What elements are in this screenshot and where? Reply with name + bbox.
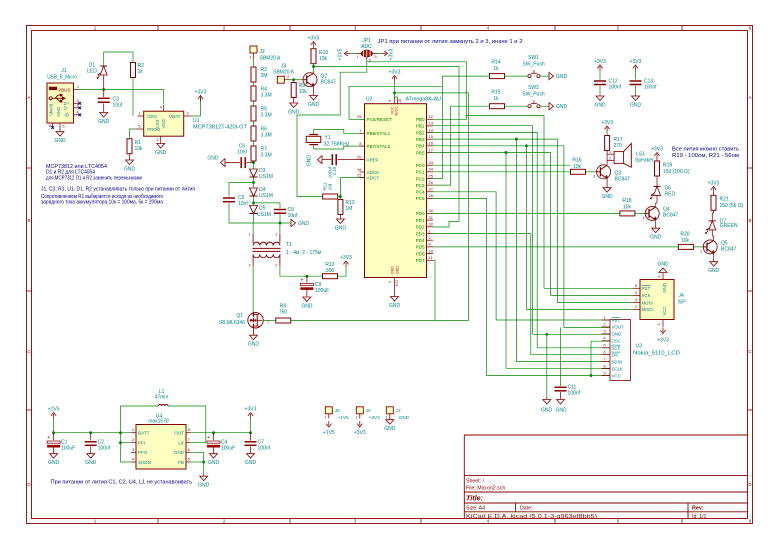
wire R5-R6 [253, 121, 255, 126]
wire PFI to rail [121, 433, 132, 443]
connector J6 [356, 407, 363, 414]
capacitor C1 100uF [53, 433, 55, 440]
resistor R13 1M [339, 197, 341, 200]
U4 pin 1 BATT [131, 432, 136, 434]
svg-text:19: 19 [357, 167, 362, 172]
svg-text:PB3: PB3 [416, 137, 425, 142]
svg-text:10uf: 10uf [113, 102, 123, 108]
U2 pin 11 PD7 [427, 259, 434, 261]
svg-text:MOSI: MOSI [642, 300, 653, 305]
IC U1 MCP73812 [144, 111, 184, 136]
svg-text:CEN: CEN [147, 114, 157, 119]
U2 pin 26 PC3 [427, 184, 434, 186]
svg-text:B: B [748, 218, 751, 223]
wire PB5 to LCD SCLK [505, 153, 507, 369]
svg-text:10k: 10k [319, 56, 328, 62]
svg-text:GND: GND [288, 110, 300, 116]
svg-text:ADC7: ADC7 [367, 175, 380, 180]
svg-text:VOUT: VOUT [612, 325, 625, 330]
svg-text:+3V3: +3V3 [389, 70, 401, 76]
svg-text:270: 270 [614, 143, 623, 149]
svg-text:+3V3: +3V3 [630, 59, 642, 65]
svg-text:16: 16 [429, 141, 434, 146]
svg-text:12: 12 [429, 114, 434, 119]
svg-text:17: 17 [429, 147, 434, 152]
U1 pin 3 VBAT [184, 115, 192, 117]
svg-text:GND: GND [298, 221, 310, 227]
svg-text:GND: GND [308, 102, 320, 108]
svg-text:GND: GND [556, 74, 568, 80]
junction PB3 SDIN [515, 138, 518, 141]
wire PB0 to RST net [433, 115, 544, 288]
resistor R2 1k [131, 63, 136, 78]
svg-text:13: 13 [429, 121, 434, 126]
svg-text:10k: 10k [135, 146, 144, 152]
ground below R9 [293, 102, 295, 104]
U2 pin 19 ADC6 [360, 171, 365, 173]
svg-text:300: 300 [326, 268, 335, 274]
svg-text:R20: R20 [680, 232, 689, 238]
ground below J7 [389, 419, 391, 420]
wire PC4 to LCD RST [433, 192, 496, 320]
resistor R17 270 [605, 136, 610, 151]
wire to C5 top [229, 183, 254, 197]
svg-text:PB7/XTAL2: PB7/XTAL2 [367, 144, 391, 149]
power +3V3 U4 out [250, 414, 252, 419]
wire PD7 branch [433, 260, 435, 262]
ground below Q4 [655, 227, 657, 228]
svg-text:Id: 1/1: Id: 1/1 [692, 514, 707, 520]
svg-text:+3V3: +3V3 [195, 90, 207, 96]
svg-text:18: 18 [398, 99, 402, 103]
wire PB4 branch to J4 MISO [526, 146, 632, 310]
wire to C8 top [254, 203, 281, 208]
svg-text:1: 1 [275, 233, 277, 237]
wire C5 bottom [229, 203, 254, 223]
svg-text:1: 1 [609, 150, 611, 154]
U3 pin 4 OSC [602, 340, 611, 342]
power +3V3 R10 [313, 43, 315, 48]
U3 pin 9 VCC [602, 375, 611, 377]
Q4 emitter to ground [655, 220, 657, 227]
svg-text:зарядного тока аккумулятора 10: зарядного тока аккумулятора 10к = 100ма,… [41, 200, 163, 206]
svg-text:A: A [748, 95, 751, 100]
wire LCD VCC row [487, 375, 611, 377]
svg-text:PD0: PD0 [416, 211, 425, 216]
power +1V5 below J5 [328, 421, 330, 426]
U4 pin 8 OUT [186, 432, 191, 434]
ground above J4 [662, 273, 664, 274]
title block [464, 434, 747, 436]
svg-text:MCP73812T-420I-OT: MCP73812T-420I-OT [193, 125, 247, 131]
svg-text:D/C: D/C [612, 353, 620, 358]
U3 pin 8 SCLK [602, 368, 611, 370]
pin 5 GND [59, 123, 61, 129]
svg-text:Sheet: /: Sheet: / [466, 478, 484, 484]
wire R10 top to +3V3 [313, 47, 315, 49]
ground below Q2 [313, 94, 315, 96]
power +3V3 R12 [345, 263, 347, 268]
transistor Q2 BC847 [303, 73, 317, 87]
svg-text:5,21: 5,21 [395, 280, 399, 287]
ground below R1 [129, 159, 131, 161]
svg-text:1k: 1k [138, 69, 144, 75]
svg-text:PD7: PD7 [416, 258, 425, 263]
wire PD7 branch to gate run [434, 262, 436, 321]
svg-text:R19 - 100ом, R21 - 56ом: R19 - 100ом, R21 - 56ом [672, 153, 740, 159]
svg-text:PC0: PC0 [416, 163, 425, 168]
wire R2 to U1 CEN [132, 78, 134, 117]
svg-text:+1V5: +1V5 [337, 48, 343, 60]
wire PD0 to R18 [433, 212, 620, 214]
wire PD3 to LCD D/C [433, 234, 531, 355]
ground below Q3 [606, 187, 608, 188]
svg-text:GND: GND [662, 283, 667, 293]
svg-text:100uF: 100uF [315, 288, 329, 294]
svg-text:100nf: 100nf [644, 85, 657, 91]
U2 pin 17 PB5 [427, 152, 434, 154]
svg-text:A: A [27, 95, 30, 100]
power +3V3 right of JP1 [382, 53, 387, 55]
svg-text:GND: GND [708, 268, 720, 274]
wire R15 left [451, 105, 490, 107]
svg-text:GND: GND [541, 408, 553, 414]
svg-text:GND: GND [207, 156, 219, 162]
ground below C12 [599, 95, 601, 97]
svg-text:AVCC: AVCC [395, 106, 399, 116]
wire J3 to Q2 base [290, 79, 303, 81]
svg-text:100nf: 100nf [568, 391, 581, 397]
svg-text:PD4: PD4 [416, 238, 425, 243]
wire VBAT to +3V3 [192, 96, 201, 117]
U2 GND pins bottom [394, 278, 396, 297]
ground below C11 [560, 398, 562, 400]
svg-text:SDIN: SDIN [612, 359, 623, 364]
svg-text:GND: GND [650, 235, 662, 241]
svg-text:US1M: US1M [259, 193, 273, 199]
svg-text:При питании от лития C1, C2, U: При питании от лития C1, C2, U4, L1 не у… [51, 479, 193, 485]
wire OSC-VCC tie [590, 341, 592, 375]
svg-text:1: 1 [324, 416, 326, 420]
U2 VCC AVCC top pins [394, 97, 396, 104]
wire R6-R7 [253, 141, 255, 146]
svg-text:RST: RST [642, 286, 651, 291]
svg-text:J1, C3, R1, U1, D1, R2 устанав: J1, C3, R1, U1, D1, R2 устанавливать тол… [41, 187, 195, 193]
wire T1 primary right to C9 node [280, 266, 323, 276]
svg-text:GND: GND [389, 303, 401, 309]
U3 pin 3 GND [602, 333, 611, 335]
resistor R21 150 [711, 195, 716, 210]
wire PB1 to LCD GND row [433, 126, 533, 335]
wire R15 to SW2 [505, 105, 528, 107]
svg-text:Shield: Shield [49, 103, 54, 116]
svg-text:GND: GND [248, 342, 260, 348]
U2 pin 25 PC2 [427, 177, 434, 179]
wire LCD RST row [496, 319, 610, 321]
svg-text:ID: ID [65, 113, 70, 118]
U2 pin 22 ADC7 [360, 177, 365, 179]
svg-text:J5: J5 [335, 408, 340, 413]
svg-text:IRLML6346: IRLML6346 [219, 320, 245, 326]
capacitor C7 100nf [250, 433, 252, 441]
svg-text:26: 26 [429, 180, 434, 185]
wire PB5 SCK row [433, 153, 633, 296]
svg-text:+3V3: +3V3 [594, 59, 606, 65]
power +3V3 R19 [656, 154, 658, 159]
J4 pin 1 MISO [633, 308, 640, 310]
svg-text:USB_B_Micro: USB_B_Micro [47, 75, 77, 81]
Q1 drain lead [252, 311, 254, 314]
svg-text:+1V5: +1V5 [323, 430, 335, 436]
svg-text:GND: GND [556, 104, 568, 110]
capacitor C2 100nf [90, 433, 92, 441]
svg-text:Date:: Date: [520, 506, 532, 512]
svg-text:SW2: SW2 [528, 85, 539, 91]
svg-text:29: 29 [357, 114, 362, 119]
resistor R10 10k [311, 49, 316, 64]
ground below C9 [306, 296, 308, 298]
wire R7 to node [253, 161, 255, 169]
svg-text:GND: GND [98, 119, 110, 125]
transistor Q5 BC847 [703, 240, 717, 254]
U4 pin 4 SHDN [131, 461, 136, 463]
wire T1 secondary left up [252, 223, 254, 234]
svg-text:4: 4 [388, 100, 392, 102]
svg-text:+3V3: +3V3 [389, 48, 395, 60]
junction D3-C5 [252, 181, 255, 184]
svg-text:+3V3: +3V3 [245, 407, 257, 413]
svg-text:+: + [300, 277, 303, 283]
svg-text:SBM20 A: SBM20 A [260, 56, 282, 62]
U2 pin 15 PB3 [427, 138, 434, 140]
ground below C13 [635, 95, 637, 97]
U3 pin 7 SDIN [602, 361, 611, 363]
U4 pin 2 PFI [131, 442, 136, 444]
power +3V3 speaker [606, 128, 608, 133]
svg-text:Y1: Y1 [325, 135, 331, 141]
svg-text:+3V3: +3V3 [708, 181, 720, 187]
svg-text:R21: R21 [720, 197, 729, 203]
svg-text:PD2: PD2 [416, 225, 425, 230]
svg-text:GND: GND [85, 460, 97, 466]
wire D4-D5 [253, 196, 255, 206]
svg-text:SCLK: SCLK [612, 366, 624, 371]
power +1V5 left of JP1 [346, 53, 351, 55]
U2 pin 9 PD5 [427, 246, 434, 248]
svg-text:GND: GND [54, 138, 66, 144]
svg-text:GND: GND [124, 167, 136, 173]
svg-text:PC3: PC3 [416, 183, 425, 188]
U2 pin 30 PD0 [427, 212, 434, 214]
svg-text:VBUS: VBUS [58, 87, 71, 92]
svg-text:47mm: 47mm [155, 395, 169, 401]
svg-text:100uF: 100uF [61, 446, 75, 452]
wire D7 to R21 [711, 213, 713, 221]
wire PB2 to LCD SCE [433, 132, 537, 347]
junction Q2-R10 [312, 65, 315, 68]
svg-text:T1: T1 [286, 242, 292, 248]
speaker pin 2 [607, 159, 614, 161]
svg-text:PD3: PD3 [416, 231, 425, 236]
U4 pin 3 PFO [131, 451, 136, 453]
wire SHDN to rail [121, 443, 132, 462]
svg-text:GND: GND [399, 415, 410, 420]
power +3V3 below J4 [662, 328, 664, 333]
junction R11-R13 [339, 195, 342, 198]
svg-text:10nf: 10nf [238, 201, 248, 207]
svg-text:PFO: PFO [138, 450, 148, 455]
svg-text:PC1: PC1 [416, 170, 425, 175]
junction C9 [305, 275, 308, 278]
svg-text:PB2: PB2 [416, 130, 425, 135]
resistor R1 10k [127, 139, 132, 154]
U1 pin 2 VSS [160, 136, 162, 141]
svg-text:Size: A4: Size: A4 [466, 506, 485, 512]
capacitor C5 10nf [223, 197, 235, 199]
svg-text:28: 28 [429, 193, 434, 198]
wire RESET run [349, 118, 365, 120]
wire D6 to R19 [656, 176, 658, 186]
diode D6 RED led [654, 185, 661, 187]
diode D3 US1M [250, 169, 258, 177]
svg-text:D-: D- [64, 106, 69, 111]
Q4 collector to D6 [655, 203, 657, 206]
wire LCD GND down [546, 334, 548, 398]
U3 pin 1 RST [602, 319, 611, 321]
wire T1 primary left to Q1 drain [252, 266, 254, 312]
svg-text:VDD: VDD [161, 119, 166, 128]
wire R1 to gnd [129, 154, 131, 159]
svg-text:2: 2 [657, 324, 661, 326]
svg-text:10k: 10k [573, 164, 582, 170]
junction OSC VCC [590, 374, 593, 377]
power +3V3 R21 [713, 188, 715, 193]
diode D7 GREEN led [709, 220, 716, 222]
svg-text:PB1: PB1 [416, 124, 425, 129]
wire LCD SCE row [537, 347, 610, 349]
wire PB3 MOSI row [433, 139, 633, 302]
resistor R14 1k [490, 74, 505, 79]
svg-text:ISP: ISP [678, 300, 687, 306]
svg-text:Q1: Q1 [236, 313, 243, 319]
svg-text:GND: GND [594, 103, 606, 109]
resistor R15 1k [490, 104, 505, 109]
svg-text:GND: GND [657, 262, 669, 268]
svg-text:PD1: PD1 [416, 218, 425, 223]
svg-text:+1V5: +1V5 [338, 415, 349, 420]
svg-text:GND: GND [335, 226, 347, 232]
svg-text:VBAT: VBAT [169, 114, 181, 119]
svg-text:SCE: SCE [612, 346, 621, 351]
svg-text:SW_Push: SW_Push [522, 62, 544, 68]
svg-text:27: 27 [429, 187, 434, 192]
svg-text:U3: U3 [636, 344, 643, 350]
svg-text:23: 23 [429, 160, 434, 165]
svg-text:1k: 1k [493, 66, 499, 72]
U1 pin 4 VDD [163, 105, 165, 112]
ground right of SW2 [549, 103, 554, 110]
power +3V3 below J6 [359, 421, 361, 426]
svg-text:30: 30 [429, 208, 434, 213]
svg-text:VCC: VCC [612, 373, 621, 378]
wire BATT rail [54, 432, 131, 434]
svg-text:R14: R14 [491, 60, 500, 66]
svg-text:AREF: AREF [367, 157, 379, 162]
svg-text:10: 10 [429, 248, 434, 253]
resistor R5 3.3M [251, 106, 256, 121]
svg-text:24: 24 [429, 167, 434, 172]
power +1V5 U4 [53, 414, 55, 419]
svg-text:GND: GND [384, 426, 396, 432]
wire PB4 MISO row [433, 146, 564, 328]
svg-text:10k: 10k [681, 238, 690, 244]
svg-text:OSC: OSC [612, 339, 622, 344]
svg-text:GND: GND [391, 266, 395, 274]
wire R18 to Q4 [635, 212, 645, 214]
Q2 collector wire [313, 67, 315, 73]
svg-text:+3V3: +3V3 [308, 36, 320, 42]
junction R7-C6-D3 [252, 161, 255, 164]
svg-text:JP1 при питании от лития замкн: JP1 при питании от лития замкнуть 2 и 3,… [378, 39, 523, 45]
wire J4 RST row [544, 287, 633, 289]
svg-text:10k: 10k [623, 205, 632, 211]
wire XTAL1 to crystal [314, 130, 365, 135]
wire +3V3 to U2 VCC [395, 81, 398, 99]
svg-text:GND: GND [307, 155, 313, 167]
pulse wire to PD2 [314, 67, 460, 228]
svg-text:+: + [207, 435, 210, 441]
diode D5 US1M [250, 206, 258, 214]
wire R20 to Q5 [693, 246, 703, 248]
J4 pin 3 SCK [633, 294, 640, 296]
pin 3 D+ [74, 102, 80, 104]
wire LCD OSC row [591, 340, 610, 342]
svg-text:150 (100 Ω): 150 (100 Ω) [663, 169, 690, 175]
ground below R13 [339, 218, 341, 220]
U2 pin 16 PB4 [427, 145, 434, 147]
svg-text:31: 31 [429, 215, 434, 220]
wire L1 loop [121, 406, 159, 433]
svg-text:LED: LED [87, 69, 97, 75]
wire LCD DC row [531, 354, 610, 356]
ground right of SW1 [549, 73, 554, 80]
svg-text:ADC6: ADC6 [367, 170, 380, 175]
wire LCD GND row [533, 333, 611, 335]
J4 pin 2 VCC bottom [662, 320, 664, 328]
resistor R3 2M [251, 67, 256, 82]
J4 pin 4 MOSI [633, 302, 640, 304]
svg-text:C10: C10 [332, 166, 337, 175]
svg-text:SW1: SW1 [528, 55, 539, 61]
U2 pin 28 PC5 [427, 197, 434, 199]
U3 pin 5 SCE [602, 347, 611, 349]
svg-text:J6: J6 [366, 408, 371, 413]
U3 pin 2 VOUT [602, 326, 611, 328]
JP1 pin 1 [356, 53, 362, 55]
svg-text:750: 750 [279, 310, 288, 316]
pin 4 ID [74, 114, 80, 116]
svg-text:J1: J1 [61, 68, 67, 74]
wire R14 left [442, 75, 489, 77]
JP1 pin 2 [366, 57, 368, 60]
svg-text:GND: GND [208, 460, 220, 466]
resistor R19 150 [655, 161, 660, 176]
transistor Q1 IRLML6346 mosfet [248, 313, 263, 328]
svg-text:1: 1 [355, 416, 357, 420]
U2 pin 24 PC1 [427, 171, 434, 173]
svg-text:1M: 1M [345, 206, 352, 212]
U4 pin 5 FB [186, 461, 191, 463]
